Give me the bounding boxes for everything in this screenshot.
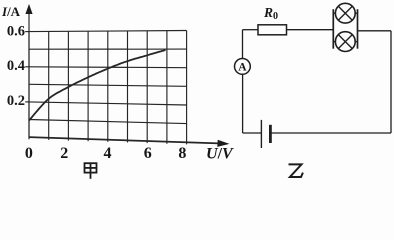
svg-text:I/A: I/A [1, 4, 21, 19]
svg-text:8: 8 [178, 145, 186, 162]
svg-text:6: 6 [144, 145, 152, 162]
svg-text:U/V: U/V [206, 146, 234, 163]
svg-text:4: 4 [104, 145, 112, 162]
svg-text:A: A [238, 61, 247, 73]
svg-text:0.2: 0.2 [7, 93, 25, 109]
svg-text:0: 0 [25, 145, 33, 162]
svg-text:2: 2 [60, 145, 68, 162]
svg-text:0.4: 0.4 [7, 58, 25, 74]
svg-text:0.6: 0.6 [7, 24, 25, 40]
